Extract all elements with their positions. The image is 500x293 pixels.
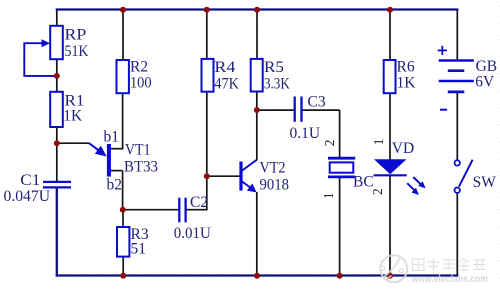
svg-text:VD: VD [392, 140, 414, 157]
svg-text:51: 51 [131, 241, 147, 258]
svg-text:b1: b1 [104, 128, 120, 145]
svg-text:R4: R4 [214, 59, 235, 76]
svg-text:1: 1 [371, 139, 386, 146]
svg-text:2: 2 [370, 188, 385, 195]
svg-text:R6: R6 [397, 58, 415, 75]
svg-text:C1: C1 [20, 172, 40, 189]
svg-text:3.3K: 3.3K [264, 75, 290, 92]
svg-text:BC: BC [353, 174, 374, 191]
svg-text:C2: C2 [190, 194, 208, 211]
svg-text:R2: R2 [130, 58, 148, 75]
svg-text:1K: 1K [63, 108, 83, 125]
svg-text:9018: 9018 [260, 176, 290, 193]
svg-text:GB: GB [476, 58, 498, 75]
svg-text:b2: b2 [107, 176, 123, 193]
svg-text:0.047U: 0.047U [4, 188, 51, 205]
svg-text:1: 1 [321, 192, 336, 199]
svg-text:51K: 51K [65, 43, 90, 60]
svg-text:R5: R5 [264, 59, 284, 76]
svg-text:C3: C3 [308, 94, 326, 111]
svg-text:1K: 1K [397, 74, 417, 91]
svg-text:RP: RP [65, 26, 87, 43]
svg-text:SW: SW [473, 174, 497, 191]
svg-text:6V: 6V [475, 74, 495, 91]
svg-text:0.1U: 0.1U [290, 125, 321, 142]
svg-text:VT2: VT2 [260, 159, 286, 176]
svg-text:VT1: VT1 [125, 141, 151, 158]
svg-text:47K: 47K [214, 75, 239, 92]
svg-text:BT33: BT33 [124, 158, 158, 175]
svg-text:100: 100 [130, 74, 152, 91]
svg-text:2: 2 [322, 140, 337, 147]
svg-text:www.elecfans.com: www.elecfans.com [411, 273, 488, 285]
svg-text:0.01U: 0.01U [174, 225, 211, 242]
